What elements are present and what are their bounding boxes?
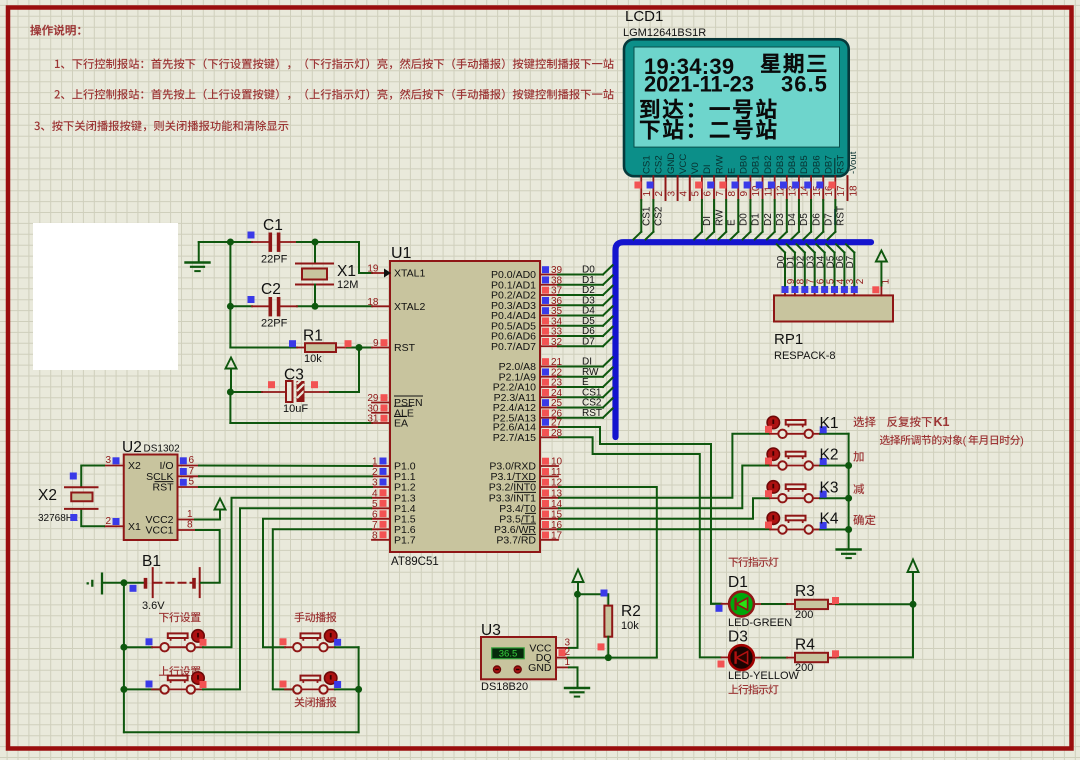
svg-text:DI: DI bbox=[702, 164, 713, 174]
svg-text:D6: D6 bbox=[811, 213, 822, 226]
svg-text:2: 2 bbox=[654, 191, 665, 197]
U3 temperature display bbox=[492, 648, 525, 659]
instruction line 3 bbox=[34, 120, 288, 131]
svg-text:V0: V0 bbox=[690, 162, 701, 174]
svg-text:5: 5 bbox=[189, 477, 195, 488]
svg-text:17: 17 bbox=[836, 185, 847, 197]
button up-set bbox=[160, 685, 168, 693]
key K1 bbox=[778, 430, 786, 438]
svg-text:X2: X2 bbox=[128, 460, 141, 472]
svg-text:R1: R1 bbox=[303, 328, 323, 345]
svg-text:8: 8 bbox=[372, 531, 378, 542]
svg-text:C1: C1 bbox=[263, 217, 283, 234]
svg-text:10k: 10k bbox=[304, 353, 322, 365]
node led rail bbox=[910, 601, 917, 608]
svg-text:E: E bbox=[726, 168, 737, 174]
svg-text:DB6: DB6 bbox=[811, 155, 822, 174]
svg-text:C2: C2 bbox=[261, 281, 281, 298]
svg-text:4: 4 bbox=[678, 191, 689, 197]
key K4 bbox=[778, 525, 786, 533]
wire P3.2 (pin12) to DQ net bbox=[558, 487, 657, 658]
svg-text:36.5: 36.5 bbox=[781, 72, 828, 97]
svg-text:D0: D0 bbox=[739, 213, 750, 226]
svg-text:3: 3 bbox=[105, 455, 111, 466]
U1 XTAL1 clock arrow bbox=[384, 269, 391, 278]
svg-text:R/W: R/W bbox=[714, 154, 725, 174]
lcd LCD1 body bbox=[624, 39, 849, 176]
svg-text:GND: GND bbox=[666, 153, 677, 174]
svg-text:18: 18 bbox=[848, 185, 859, 197]
svg-text:U1: U1 bbox=[391, 245, 412, 262]
svg-text:CS2: CS2 bbox=[654, 155, 665, 174]
svg-text:R4: R4 bbox=[795, 637, 815, 654]
svg-text:4: 4 bbox=[372, 489, 378, 500]
svg-text:DI: DI bbox=[702, 216, 713, 226]
led rail down bbox=[836, 604, 913, 657]
svg-text:K3: K3 bbox=[820, 479, 839, 496]
svg-text:CS1: CS1 bbox=[642, 206, 653, 226]
resistor pack RP1 body bbox=[774, 295, 893, 321]
svg-text:DB1: DB1 bbox=[751, 155, 762, 174]
svg-text:31: 31 bbox=[367, 414, 379, 425]
button close-broadcast bbox=[293, 685, 301, 693]
wire X2 crystal bottom bbox=[81, 509, 105, 526]
svg-text:8: 8 bbox=[727, 191, 738, 197]
left rail battery to buttons bbox=[123, 583, 125, 733]
svg-text:K2: K2 bbox=[820, 447, 839, 464]
svg-text:RST: RST bbox=[582, 408, 602, 419]
svg-text:200: 200 bbox=[795, 662, 813, 674]
instruction line 2 bbox=[54, 89, 613, 100]
U2 right pins bbox=[178, 465, 200, 467]
ground (battery, rotated) bbox=[88, 573, 102, 595]
svg-text:B1: B1 bbox=[142, 553, 161, 570]
resistor R2 (vertical) bbox=[578, 594, 609, 605]
node battery bbox=[120, 579, 127, 586]
capacitor C2 bbox=[252, 305, 269, 307]
svg-text:X1: X1 bbox=[128, 521, 141, 533]
svg-text:5: 5 bbox=[372, 499, 378, 510]
wire VCC1 to battery bbox=[195, 530, 220, 583]
svg-text:8: 8 bbox=[187, 520, 193, 531]
bottom rail bbox=[124, 731, 359, 733]
svg-text:D5: D5 bbox=[799, 213, 810, 226]
svg-text:11: 11 bbox=[551, 467, 562, 478]
wire P3.6 (pin16) to K4 bbox=[558, 528, 770, 530]
svg-text:EA: EA bbox=[394, 418, 408, 430]
svg-text:RST: RST bbox=[836, 155, 847, 174]
wire EA rail bbox=[229, 392, 231, 423]
U1 P1 pin stubs bbox=[372, 465, 390, 467]
U1 right pin stubs bbox=[540, 274, 558, 276]
svg-text:3: 3 bbox=[666, 191, 677, 197]
svg-text:VCC1: VCC1 bbox=[145, 525, 173, 537]
svg-text:P2.7/A15: P2.7/A15 bbox=[493, 432, 536, 444]
svg-text:P1.7: P1.7 bbox=[394, 534, 416, 546]
right vertical of bottom buttons bbox=[358, 647, 360, 732]
svg-text:R3: R3 bbox=[795, 583, 815, 600]
power symbol (U3) bbox=[573, 570, 584, 583]
wire P2.7 (pin28) to LED D3 bbox=[558, 437, 722, 657]
svg-text:RST: RST bbox=[836, 206, 847, 226]
svg-text:LGM12641BS1R: LGM12641BS1R bbox=[623, 27, 706, 39]
svg-text:2: 2 bbox=[855, 278, 866, 284]
wire P2.6 (pin27) to LED D1 bbox=[558, 427, 722, 604]
svg-text:D4: D4 bbox=[787, 213, 798, 226]
svg-text:9: 9 bbox=[739, 191, 750, 197]
node DQ-R2 bbox=[605, 654, 612, 661]
wire P1.5 to btn-manual bbox=[263, 519, 372, 647]
svg-text:(: ( bbox=[963, 435, 967, 447]
svg-text:DB2: DB2 bbox=[763, 155, 774, 174]
wire P3.3 (pin13) to K1 bbox=[558, 434, 770, 498]
svg-text:DS1302: DS1302 bbox=[144, 444, 181, 455]
svg-text:RW: RW bbox=[714, 209, 725, 226]
svg-text:D1: D1 bbox=[728, 574, 748, 591]
lcd text line1 weekday bbox=[761, 53, 826, 73]
wires P0 to bus bbox=[558, 274, 603, 276]
svg-text:D7: D7 bbox=[824, 213, 835, 226]
annotation btn-down label bbox=[159, 612, 201, 622]
node C1-left bbox=[227, 239, 234, 246]
svg-text:R2: R2 bbox=[621, 603, 641, 620]
svg-text:D1: D1 bbox=[751, 213, 762, 226]
instruction line 1 bbox=[55, 58, 614, 69]
ground (near C1) bbox=[198, 242, 200, 263]
capacitor C3 (electrolytic) bbox=[230, 391, 262, 393]
data bus (blue) bbox=[616, 242, 872, 437]
svg-text:19: 19 bbox=[367, 264, 379, 275]
svg-text:12M: 12M bbox=[337, 279, 358, 291]
annotation btn-up label bbox=[159, 666, 201, 676]
white patch rectangle bbox=[33, 223, 178, 370]
svg-text:U2: U2 bbox=[122, 439, 142, 456]
svg-text:18: 18 bbox=[367, 297, 379, 308]
svg-text:LED-GREEN: LED-GREEN bbox=[728, 617, 792, 629]
svg-text:2021-11-23: 2021-11-23 bbox=[644, 72, 754, 97]
resistor R1 bbox=[297, 347, 305, 349]
wire C2 row bbox=[230, 305, 252, 307]
ground (keys) bbox=[837, 548, 861, 550]
svg-text:RESPACK-8: RESPACK-8 bbox=[774, 350, 836, 362]
node C3-left bbox=[227, 389, 234, 396]
lcd text line3 arrive station bbox=[640, 99, 776, 119]
wire VCC2 + power symbol bbox=[195, 519, 220, 521]
keys right rail bbox=[848, 434, 850, 550]
button down-set bbox=[160, 643, 168, 651]
annotation K1 note line1 bbox=[887, 416, 932, 427]
U3 +/- buttons bbox=[494, 666, 501, 673]
svg-text:22PF: 22PF bbox=[261, 318, 288, 330]
svg-text:10: 10 bbox=[551, 457, 563, 468]
wire C1 row bbox=[199, 241, 231, 243]
annotation btn-close label bbox=[294, 697, 336, 707]
svg-text:DB5: DB5 bbox=[799, 155, 810, 174]
button manual-broadcast bbox=[293, 643, 301, 651]
svg-text:): ) bbox=[1020, 435, 1024, 447]
wire P1.3 to btn-down bbox=[232, 498, 373, 647]
svg-text:P0.7/AD7: P0.7/AD7 bbox=[491, 341, 536, 353]
node C2 junctions bbox=[227, 303, 234, 310]
svg-text:10uF: 10uF bbox=[283, 403, 308, 415]
svg-text:6: 6 bbox=[703, 191, 714, 197]
svg-text:6: 6 bbox=[372, 510, 378, 521]
wire left rail C1-C2 bbox=[229, 242, 231, 306]
U3 pin stubs bbox=[556, 647, 568, 649]
annotation btn-manual label bbox=[295, 612, 337, 622]
power symbol (led rail) bbox=[908, 560, 919, 573]
svg-text:6: 6 bbox=[189, 455, 195, 466]
svg-text:P3.7/RD: P3.7/RD bbox=[496, 534, 536, 546]
svg-text:GND: GND bbox=[528, 662, 552, 674]
key K3 bbox=[778, 494, 786, 502]
svg-text:DS18B20: DS18B20 bbox=[481, 681, 528, 693]
svg-text:5: 5 bbox=[691, 191, 702, 197]
wire RST row bbox=[229, 306, 231, 347]
node RST junction bbox=[356, 344, 363, 351]
svg-text:X1: X1 bbox=[337, 263, 356, 280]
wire U3 VCC bbox=[568, 594, 578, 648]
RST overlines (rotated) bbox=[834, 158, 836, 225]
U1 left pin stubs upper bbox=[372, 272, 390, 274]
crystal X1 bbox=[314, 242, 316, 264]
wires P2.0-P2.5 to bus bbox=[558, 366, 603, 368]
svg-text:XTAL1: XTAL1 bbox=[394, 268, 425, 280]
svg-text:D7: D7 bbox=[582, 336, 595, 347]
svg-text:3.6V: 3.6V bbox=[142, 600, 165, 612]
svg-text:XTAL2: XTAL2 bbox=[394, 301, 425, 313]
svg-text:K1: K1 bbox=[934, 415, 950, 429]
svg-text:K4: K4 bbox=[820, 511, 839, 528]
svg-text:RP1: RP1 bbox=[774, 331, 803, 348]
annotation up-indicator label bbox=[729, 684, 779, 694]
svg-text:D7: D7 bbox=[845, 255, 856, 268]
svg-text:D3: D3 bbox=[775, 213, 786, 226]
svg-text:X2: X2 bbox=[38, 487, 57, 504]
svg-text:D3: D3 bbox=[728, 629, 748, 646]
wire P1.4 to btn-up bbox=[240, 508, 372, 689]
RP1 pins bbox=[784, 286, 786, 296]
svg-text:1: 1 bbox=[642, 191, 653, 197]
wire DQ net bbox=[568, 657, 657, 659]
svg-text:LCD1: LCD1 bbox=[625, 8, 663, 25]
svg-text:7: 7 bbox=[372, 520, 378, 531]
svg-text:2: 2 bbox=[105, 516, 111, 527]
svg-text:DB0: DB0 bbox=[739, 155, 750, 174]
mcu U1 body bbox=[390, 261, 540, 552]
svg-text:7: 7 bbox=[715, 191, 726, 197]
svg-text:22PF: 22PF bbox=[261, 254, 288, 266]
svg-text:DB3: DB3 bbox=[775, 155, 786, 174]
svg-text:CS2: CS2 bbox=[654, 206, 665, 226]
RP1 pin 1 + power bbox=[880, 286, 882, 296]
svg-text:D2: D2 bbox=[763, 213, 774, 226]
svg-text:200: 200 bbox=[795, 609, 813, 621]
svg-text:RST: RST bbox=[394, 342, 416, 354]
node VCC-R2 bbox=[574, 591, 581, 598]
svg-text:10k: 10k bbox=[621, 620, 639, 632]
power symbol (left rail) bbox=[226, 358, 237, 369]
svg-text:K1: K1 bbox=[820, 415, 839, 432]
svg-text:DB4: DB4 bbox=[787, 155, 798, 174]
wire X2 crystal top bbox=[81, 466, 105, 488]
annotation K1 note line2 bbox=[880, 435, 963, 445]
svg-text:7: 7 bbox=[189, 466, 195, 477]
svg-text:17: 17 bbox=[551, 531, 563, 542]
wire P3.5 (pin15) to K3 bbox=[558, 498, 770, 519]
svg-text:LED-YELLOW: LED-YELLOW bbox=[728, 670, 800, 682]
wire P1.6 to btn-close bbox=[273, 529, 372, 689]
key K2 bbox=[778, 461, 786, 469]
wire P3.4 (pin14) to K2 bbox=[558, 466, 770, 509]
svg-text:E: E bbox=[726, 219, 737, 226]
annotation down-indicator label bbox=[729, 557, 779, 567]
wire U3 GND bbox=[568, 667, 578, 688]
ground (U3) bbox=[565, 687, 589, 689]
wire U2 I/O to P1.0 bbox=[199, 465, 372, 468]
instruction heading bbox=[30, 25, 80, 36]
svg-text:9: 9 bbox=[373, 338, 379, 349]
wire U2 SCLK to P1.1 bbox=[199, 475, 372, 477]
wire U2 RST to P1.2 bbox=[199, 486, 372, 488]
lcd text line4 next station bbox=[640, 119, 776, 139]
svg-text:-Vout: -Vout bbox=[848, 151, 859, 174]
svg-text:RST: RST bbox=[153, 482, 175, 494]
svg-text:AT89C51: AT89C51 bbox=[391, 556, 439, 568]
svg-text:VCC: VCC bbox=[678, 154, 689, 174]
svg-text:36.5: 36.5 bbox=[499, 649, 518, 660]
svg-text:CS1: CS1 bbox=[642, 155, 653, 174]
svg-text:1: 1 bbox=[187, 509, 193, 520]
svg-text:C3: C3 bbox=[284, 367, 304, 384]
lcd screen bbox=[634, 47, 840, 147]
capacitor C1 bbox=[252, 241, 269, 243]
svg-text:DB7: DB7 bbox=[824, 155, 835, 174]
U2 left pins bbox=[105, 465, 124, 467]
